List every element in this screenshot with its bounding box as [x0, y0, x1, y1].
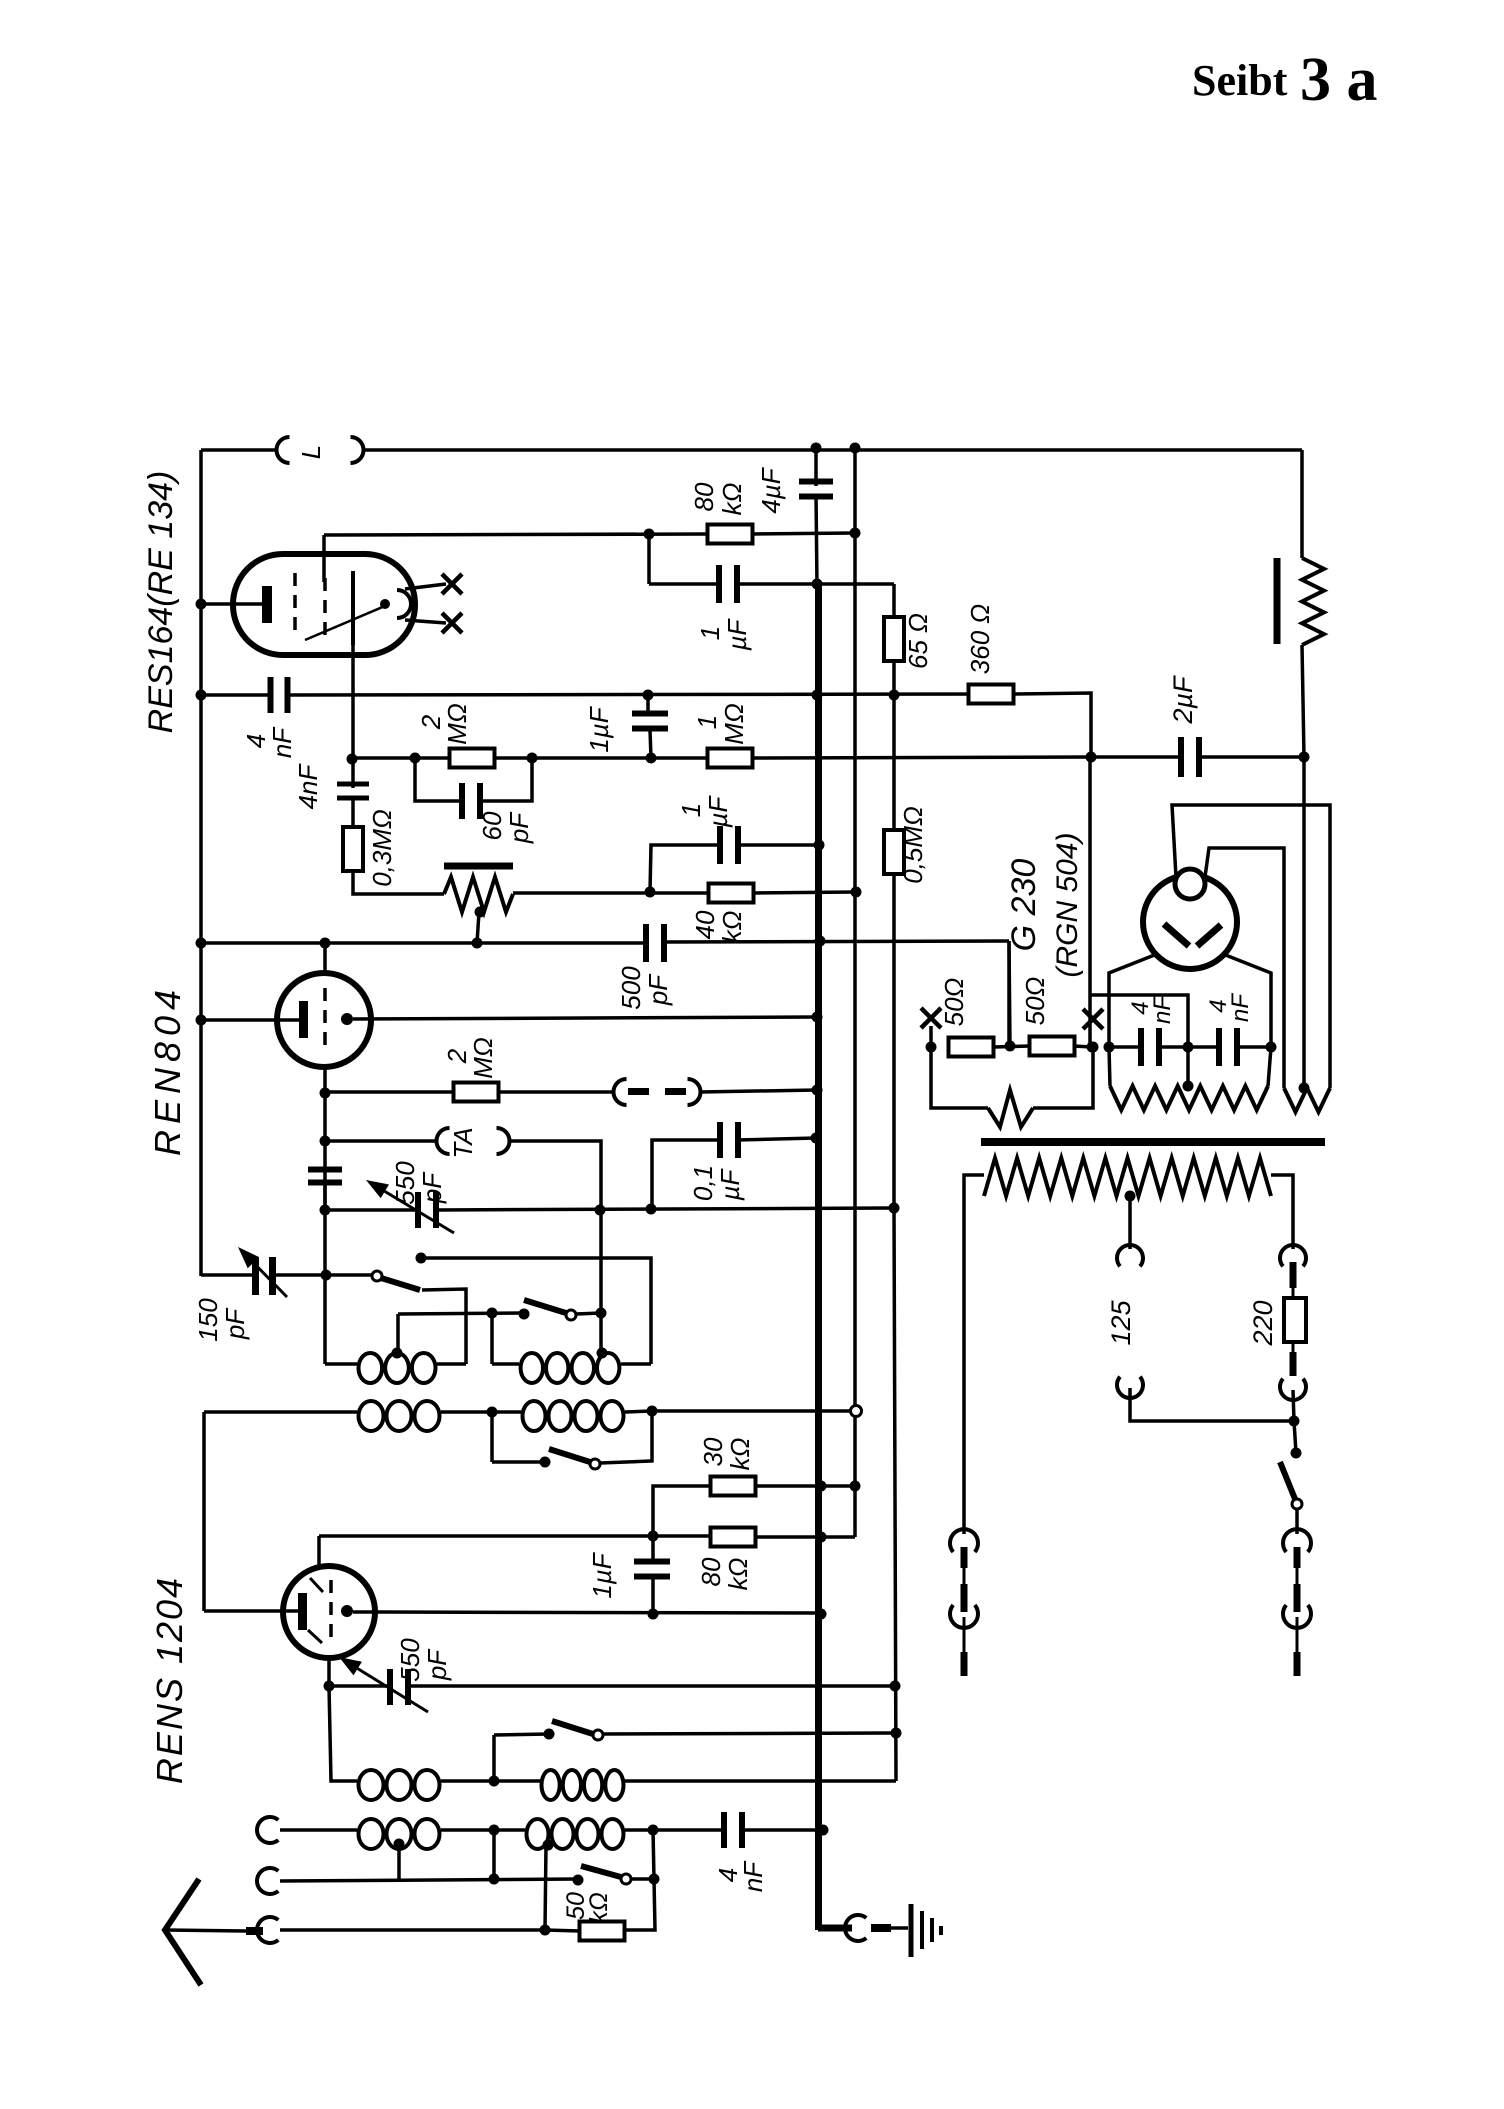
tube RES164 filament lead lower [405, 620, 446, 623]
svg-text:pF: pF [504, 811, 534, 844]
wire left vertical bus [199, 450, 203, 1276]
svg-text:125: 125 [1106, 1299, 1136, 1345]
node 1017 bus junction [812, 1012, 823, 1023]
TA jack right arc [497, 1128, 510, 1154]
switch S5 pivot [621, 1874, 631, 1884]
wire RENS anode row [319, 1534, 711, 1538]
label G230 [1005, 859, 1043, 952]
winding 4V g230 [1110, 1086, 1268, 1110]
node anode-758 junction [347, 754, 358, 765]
switch S3 pivot [590, 1459, 600, 1469]
phone jack left arc [614, 1079, 627, 1105]
wire S3 left vertical [490, 1412, 494, 1462]
socket mains left cup [950, 1605, 978, 1628]
wire 150pF row [201, 1273, 371, 1277]
svg-text:0,5MΩ: 0,5MΩ [898, 806, 928, 884]
svg-text:60: 60 [477, 811, 507, 840]
label 150pF [193, 1298, 250, 1342]
terminal X left [921, 1008, 941, 1028]
arrow 150pF [238, 1247, 287, 1297]
tube RES164 cathode bar [262, 586, 272, 623]
node 943 x477 junction [472, 938, 483, 949]
node coil4a tap [394, 1839, 405, 1850]
capacitor 60pF [459, 783, 483, 819]
wire speaker to 757 [1302, 645, 1304, 757]
resistor 2M lower [454, 1083, 499, 1102]
tube G230 cathode lead right [1223, 954, 1271, 1047]
node 1781 x494 junction [489, 1776, 500, 1787]
winding HT small [1284, 1088, 1330, 1112]
wire heater loop [931, 1047, 988, 1108]
wire caps row mid [1159, 1045, 1219, 1049]
label RGN504 [1051, 832, 1084, 977]
label 4nF g230 second [1205, 993, 1254, 1022]
plug mains left pin c [961, 1652, 968, 1676]
svg-text:µF: µF [715, 1167, 745, 1201]
node 80k left junction [644, 529, 655, 540]
resistor 0.5M [884, 830, 904, 874]
svg-text:MΩ: MΩ [468, 1037, 498, 1078]
terminal X right [1083, 1009, 1103, 1029]
tube REN804 grid dash [323, 988, 327, 1052]
resistor 50R first [949, 1038, 994, 1057]
speaker coil zigzag [1302, 558, 1324, 645]
wire 1uF-3 left corner [650, 845, 721, 892]
wire chassis bus thick [815, 584, 822, 1930]
wire S1 contact to coil1b [421, 1258, 651, 1364]
node 1830 bus junction [818, 1825, 829, 1836]
wire S2 mid vertical [490, 1313, 494, 1364]
node 1313 x601 junction [596, 1308, 607, 1319]
node 1537 bus junction [816, 1532, 827, 1543]
wire g230 winding right riser [1268, 1047, 1271, 1086]
wire caps row right [1237, 1045, 1271, 1049]
resistor 50k [580, 1922, 625, 1941]
svg-text:65 Ω: 65 Ω [903, 613, 933, 669]
socket mains left arc [950, 1529, 978, 1552]
wire 695 left segment [201, 693, 270, 697]
svg-text:pF: pF [417, 1171, 447, 1204]
coil L2a [359, 1401, 440, 1431]
svg-text:550: 550 [390, 1161, 420, 1205]
capacitor 4nF g230 first [1138, 1028, 1162, 1066]
switch S4 lever [552, 1721, 593, 1734]
node pot wiper [475, 907, 486, 918]
node 758 x415 junction [410, 753, 421, 764]
wire 300pF lower lead [323, 1183, 327, 1211]
tube RENS1204 cathode dot [341, 1605, 353, 1617]
ground lead [891, 1926, 908, 1930]
node 1486 bus junction [816, 1481, 827, 1492]
tube RES164 filament lead upper [405, 584, 446, 589]
svg-text:RES164(RE 134): RES164(RE 134) [142, 471, 180, 734]
tube RES164 heater arc [397, 590, 411, 618]
label 500pF [616, 966, 673, 1010]
resistor 1M [708, 749, 753, 768]
wire g230 winding center tap [1186, 1047, 1190, 1086]
capacitor 4nF g230 second [1216, 1028, 1240, 1066]
wire coil1b left lead [492, 1362, 519, 1366]
wire pot right to 40k [513, 891, 709, 895]
wire 1686 row [329, 1684, 895, 1688]
wire S6 lower [1295, 1509, 1299, 1534]
label 550pF first [390, 1161, 447, 1205]
wire 65R upper lead [892, 584, 896, 618]
wire 941 corner down [1007, 941, 1011, 1046]
wire 60pF loop left [415, 758, 462, 801]
svg-text:L: L [296, 445, 326, 459]
svg-text:360 Ω: 360 Ω [965, 604, 995, 674]
svg-text:1µF: 1µF [584, 705, 614, 752]
capacitor 2uF [1178, 737, 1202, 777]
wire coil4a tap down [397, 1844, 401, 1880]
label 65R [903, 613, 933, 669]
wire right rail down [1300, 450, 1304, 558]
node left-1020 junction [196, 1015, 207, 1026]
node 845 bus junction [814, 840, 825, 851]
socket antenna 2 arc [257, 1868, 278, 1894]
switch S6 lever [1280, 1462, 1295, 1499]
svg-text:550: 550 [395, 1638, 425, 1682]
wire g230 tap branch [1090, 995, 1188, 1047]
svg-text:µF: µF [703, 794, 733, 828]
socket 125 upper arc [1117, 1245, 1143, 1266]
wire top rail [201, 448, 1302, 452]
node 1047 x1092 junction [1087, 1042, 1098, 1053]
socket 125 lower arc [1117, 1377, 1143, 1398]
svg-text:30: 30 [698, 1437, 728, 1466]
svg-text:kΩ: kΩ [723, 1558, 753, 1591]
capacitor 4nF anode [337, 782, 369, 801]
svg-text:nF: nF [267, 726, 297, 758]
svg-text:pF: pF [643, 973, 673, 1006]
ground bar 4 [939, 1926, 943, 1935]
switch S6 pivot [1292, 1499, 1302, 1509]
svg-text:2µF: 2µF [1168, 675, 1198, 725]
node S5 contact [573, 1875, 584, 1886]
tube RES164 anode bar [351, 571, 355, 645]
capacitor 4nF grid [268, 677, 291, 713]
wire S4 right [603, 1733, 896, 1734]
switch S1 pivot [372, 1271, 382, 1281]
svg-text:TA: TA [448, 1127, 478, 1158]
coil L4b [527, 1819, 624, 1849]
node 1047 x1188 junction [1183, 1042, 1194, 1053]
phone jack contact bars [628, 1088, 686, 1095]
phone jack right arc [688, 1079, 701, 1105]
node 757 x1304 junction [1299, 752, 1310, 763]
wire antenna row [280, 1928, 545, 1932]
wire 0.5M upper [892, 695, 896, 830]
node S2 left junction [487, 1308, 498, 1319]
label 30k [698, 1437, 755, 1470]
label 2M upper [416, 703, 472, 744]
ground bar 1 [909, 1904, 914, 1957]
label 220 [1248, 1300, 1278, 1346]
node 1208 x894 junction [889, 1203, 900, 1214]
label 1uF fourth [587, 1551, 617, 1598]
label 4nF g230 first [1127, 995, 1176, 1024]
node 1412 x492 junction [487, 1407, 498, 1418]
label 1uF third [676, 794, 733, 828]
svg-text:kΩ: kΩ [585, 1892, 613, 1924]
label 80k lower [696, 1557, 753, 1590]
wire 50R right [1073, 1046, 1092, 1047]
svg-text:nF: nF [1227, 993, 1254, 1022]
node 1138 bus junction [811, 1133, 822, 1144]
wire 1411 to ring [652, 1409, 851, 1413]
wire 0.1uF corner [652, 1140, 721, 1209]
node 758 x532 junction [527, 753, 538, 764]
coil L4a [359, 1819, 440, 1849]
node 1879 x654 junction [649, 1874, 660, 1885]
arrow 550pF second [339, 1657, 428, 1712]
svg-text:4nF: 4nF [293, 762, 323, 809]
switch S4 riser [492, 1735, 496, 1781]
svg-text:50Ω: 50Ω [939, 978, 969, 1027]
tube RENS1204 anode bar [298, 1593, 307, 1630]
node 892 x650 junction [645, 887, 656, 898]
label RES164(RE 134) [142, 471, 180, 734]
tube G230 filament right [1197, 925, 1221, 946]
transformer core bar [981, 1138, 1325, 1146]
tube G230 anode inner loop [1205, 848, 1284, 1088]
wire coil1b right lead [621, 1362, 651, 1366]
switch S3 lever [549, 1449, 590, 1462]
svg-text:RENS 1204: RENS 1204 [149, 1576, 190, 1784]
coil L-osc-a [359, 1353, 436, 1383]
node 1090 bus junction [812, 1085, 823, 1096]
resistor 30k [711, 1477, 756, 1496]
ground bar 3 [930, 1918, 934, 1942]
terminal X left stub [929, 1026, 933, 1047]
label 125 [1106, 1299, 1136, 1345]
ground plug pin [871, 1924, 891, 1932]
tube RENS1204 grid lead [204, 1609, 300, 1613]
wire 80k-left down to 1uF [647, 534, 651, 584]
wire coil4b tap down [545, 1845, 546, 1930]
plug mains right pin a [1294, 1547, 1301, 1568]
tube G230 anode outer loop [1172, 805, 1330, 1088]
node 1047 x1093 junction [1088, 1042, 1099, 1053]
wire coil2a left lead [204, 1410, 357, 1414]
resistor 80k lower [711, 1528, 756, 1547]
svg-text:500: 500 [616, 966, 646, 1010]
wire 1uF-top left [649, 582, 721, 586]
ground plug socket arc [845, 1915, 866, 1941]
wire g230 left lead vertical [1088, 757, 1092, 1047]
wire 50R link [994, 1046, 1031, 1047]
capacitor 0.1uF [717, 1122, 741, 1158]
node 1686 x329 junction [324, 1681, 335, 1692]
svg-text:1: 1 [676, 803, 706, 817]
capacitor 550pF second [387, 1669, 411, 1705]
capacitor 4nF antenna [721, 1812, 745, 1848]
capacitor 550pF first [415, 1192, 439, 1228]
wire 360R right corner [1014, 693, 1091, 757]
wire RES164 anode lead [351, 645, 355, 788]
wire 60pF loop right [480, 758, 532, 801]
wire 80k lower right [755, 1535, 855, 1539]
plug mains right pin c [1294, 1652, 1301, 1676]
tube REN804 anode lead [201, 1018, 300, 1022]
svg-text:kΩ: kΩ [717, 483, 747, 516]
svg-text:kΩ: kΩ [725, 1438, 755, 1471]
wire coil4a left lead [280, 1828, 357, 1832]
switch S2 lever [524, 1300, 566, 1313]
antenna lead [165, 1930, 246, 1931]
winding primary [984, 1158, 1271, 1196]
node 1047 x1271 junction [1266, 1042, 1277, 1053]
resistor 50R second [1030, 1037, 1075, 1056]
wire 894 lower vertical [894, 1208, 896, 1781]
wire S3 right corner [600, 1411, 652, 1463]
potentiometer zigzag [444, 877, 513, 912]
socket 220 lower arc [1280, 1379, 1306, 1400]
capacitor 1uF mid [632, 711, 668, 732]
svg-text:150: 150 [193, 1298, 223, 1342]
socket mains right arc [1283, 1529, 1311, 1552]
label 2M lower [442, 1037, 498, 1078]
label 4nF grid [241, 726, 297, 758]
tube REN804 cathode wire [353, 1017, 817, 1019]
label TA [448, 1127, 478, 1158]
coil L3b [542, 1770, 624, 1800]
wire S4 left [494, 1734, 549, 1735]
svg-text:50Ω: 50Ω [1020, 977, 1050, 1026]
wire S3 left [492, 1460, 545, 1464]
capacitor 1uF fourth [634, 1559, 670, 1580]
node rail-814 junction [811, 443, 822, 454]
svg-text:G 230: G 230 [1005, 859, 1043, 952]
socket antenna 1 arc [257, 1817, 278, 1843]
node 1830 x653 junction [648, 1825, 659, 1836]
wire 1uF-4 leads [651, 1537, 655, 1614]
node 892 x856 junction [851, 887, 862, 898]
node 1830 x494 junction [489, 1825, 500, 1836]
wire 30k right [756, 1484, 855, 1488]
svg-text:(RGN 504): (RGN 504) [1051, 832, 1084, 977]
label 50k [562, 1892, 613, 1924]
svg-text:80: 80 [689, 482, 719, 511]
label 40k [690, 910, 747, 943]
wire 0.3M to pot [353, 871, 444, 894]
fuse 220 [1284, 1288, 1306, 1352]
wire 1209 row [325, 1208, 894, 1210]
antenna arrow [165, 1879, 201, 1985]
socket 220 upper arc [1280, 1245, 1306, 1266]
wire 1uF-mid vertical [648, 695, 651, 758]
svg-text:0,3MΩ: 0,3MΩ [367, 809, 397, 887]
wire S2 pivot to 601 [576, 1313, 601, 1314]
wire 2uF left [1091, 755, 1182, 759]
plug 220 pin upper [1290, 1262, 1297, 1288]
node 1930 x545 junction [540, 1925, 551, 1936]
node 1209 x325 junction [320, 1205, 331, 1216]
tube RENS1204 screen mark top [310, 1578, 323, 1592]
capacitor 500pF [643, 924, 667, 962]
capacitor 150pF [252, 1257, 276, 1295]
tube REN804 envelope [277, 973, 371, 1067]
tube RES164 heater dot [380, 599, 390, 609]
label 0.5M [898, 806, 928, 884]
svg-text:220: 220 [1248, 1300, 1278, 1346]
svg-text:REN804: REN804 [147, 984, 188, 1156]
cord mains right [1296, 1617, 1299, 1652]
wire osc vertical to coil3 [329, 1686, 357, 1781]
node S1 contact [416, 1253, 427, 1264]
connector L right arc [351, 437, 364, 463]
node primary tap [1125, 1191, 1136, 1202]
wire 654 vertical [626, 1830, 655, 1930]
wire 125 tap lead [1128, 1196, 1132, 1249]
node S6 contact [1291, 1448, 1302, 1459]
resistor 0.3M [343, 827, 363, 871]
label 1uF top [695, 617, 752, 651]
label 1uF mid [584, 705, 614, 752]
coil L-osc-b [521, 1353, 620, 1383]
tube RES164 grid lead [201, 602, 263, 606]
tube RENS1204 grid dash [329, 1580, 333, 1645]
svg-text:3 a: 3 a [1300, 46, 1378, 114]
wire 943 row [201, 941, 1009, 943]
node 1614 bus junction [816, 1609, 827, 1620]
wire S2 left corner down [396, 1314, 400, 1353]
label 50R first [939, 978, 969, 1027]
node 758 x1091 junction [1086, 752, 1097, 763]
wire coil4b right lead [625, 1828, 726, 1832]
tube RES164 grid dash 1 [293, 573, 297, 636]
wire coil1a right lead [437, 1362, 466, 1366]
svg-text:1µF: 1µF [587, 1551, 617, 1598]
wire S6 upper [1294, 1421, 1296, 1453]
speaker armature bar [1274, 558, 1281, 644]
node 1209 x600 junction [595, 1205, 606, 1216]
label 360R [965, 604, 995, 674]
node left-943 junction [196, 938, 207, 949]
svg-text:MΩ: MΩ [719, 703, 749, 744]
node 1092 x325 junction [320, 1088, 331, 1099]
wire S5 right [631, 1877, 654, 1881]
antenna plug pin [246, 1927, 263, 1935]
node 1486 x855 junction [850, 1481, 861, 1492]
wire 125 to switch [1130, 1388, 1294, 1421]
wire 80k right to 855 [753, 533, 855, 534]
tube RES164 envelope [233, 554, 415, 655]
label 2uF [1168, 675, 1198, 725]
node 1047 x931 junction [926, 1042, 937, 1053]
svg-text:MΩ: MΩ [442, 703, 472, 744]
wire 1uF-3 right [737, 843, 819, 847]
wire 1092 row left [325, 1090, 456, 1094]
tube RES164 heater wire diagonal [305, 606, 385, 640]
node 1046 x1010 junction [1005, 1041, 1016, 1052]
tube RENS1204 bottom lead [327, 1658, 331, 1687]
node 1411 ring junction [851, 1406, 862, 1417]
node 1275 x326 junction [321, 1270, 332, 1281]
wire 1141 row left [325, 1139, 437, 1143]
svg-text:pF: pF [422, 1648, 452, 1681]
node S2 contact [519, 1309, 530, 1320]
label 60pF [477, 811, 534, 844]
wire 695 main [288, 694, 1014, 695]
resistor 80k upper [708, 525, 753, 544]
svg-text:nF: nF [738, 1860, 768, 1892]
node 758 x651 junction [646, 753, 657, 764]
wire 941 to 50R mid [1009, 941, 1010, 1046]
potentiometer slider bar [444, 863, 513, 870]
node rail-855 junction [850, 443, 861, 454]
